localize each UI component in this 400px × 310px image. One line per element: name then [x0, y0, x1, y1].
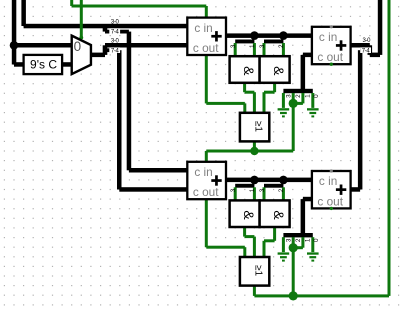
svg-text:c out: c out [317, 50, 343, 64]
wire AND U5 to OR U7 [245, 91, 255, 94]
svg-text:c out: c out [193, 185, 219, 199]
wire AND U10 output [273, 227, 276, 241]
node sum2 bit tap B [279, 176, 288, 185]
wire subtract to adder U1 carry-in [205, 6, 208, 18]
splitter K1 spine [283, 89, 312, 93]
adder U3 plus symbol [211, 179, 221, 182]
AND gate U9 box [230, 200, 260, 227]
AND gate U10 box [260, 200, 290, 227]
svg-text:3-0: 3-0 [111, 39, 120, 45]
node sum bit tap B [279, 31, 288, 40]
svg-text:&: & [271, 66, 287, 76]
wire input Y to splitter S1 [24, 24, 188, 29]
wire S1 7-4 down to adder U3 [127, 32, 132, 171]
adder U4 carry-in port [330, 169, 333, 172]
splitter K2 leg bit0 to ground [311, 237, 314, 252]
svg-text:c in: c in [319, 30, 337, 44]
svg-text:c in: c in [194, 21, 212, 35]
svg-text:9's C: 9's C [30, 58, 57, 72]
splitter K1 bit label 0 [313, 94, 320, 98]
adder U3 c out label [193, 185, 219, 199]
svg-text:3: 3 [230, 44, 237, 48]
wire OR U7 output [253, 141, 256, 151]
splitter S1 spine [103, 26, 108, 32]
svg-text:3: 3 [259, 44, 266, 48]
splitter M1 leg bit1 [253, 43, 256, 56]
svg-text:7-4: 7-4 [362, 48, 371, 54]
splitter M3 leg bit3 [234, 187, 237, 200]
splitter M3 stub [252, 180, 257, 184]
wire adder U1 carry-out down [205, 55, 208, 103]
svg-text:1: 1 [249, 44, 256, 48]
wire adder U1 sum bus [226, 33, 312, 38]
wire AND U9 output [243, 227, 246, 237]
AND gate U5 symbol [241, 66, 257, 76]
splitter S3 branch 7-4 [360, 48, 370, 52]
splitter S3 spine [368, 45, 373, 55]
splitter K1 bit label 2 [295, 94, 302, 98]
svg-text:c out: c out [193, 41, 219, 55]
node input X junction [10, 41, 19, 50]
splitter M1 leg bit3 [234, 43, 237, 56]
svg-text:1: 1 [249, 188, 256, 192]
wire mux select [79, 0, 83, 39]
wire K1 bit1 tie [293, 102, 303, 105]
splitter K1 bit label 3 [285, 94, 292, 98]
wire mux output to splitter S2 [91, 53, 105, 58]
AND gate U9 symbol [241, 210, 257, 220]
svg-text:&: & [241, 66, 257, 76]
splitter K2 combined up [301, 199, 306, 235]
wire result bus to top edge [378, 0, 383, 55]
wire S2 3-0 to adder U1 input B [105, 43, 187, 48]
splitter M4 spine [264, 184, 283, 188]
adder U1 box [187, 18, 226, 55]
svg-text:0: 0 [313, 238, 320, 242]
OR gate U7 box [240, 113, 269, 142]
adder U4 c out label [317, 194, 343, 208]
AND gate U10 symbol [271, 210, 287, 220]
svg-text:1: 1 [304, 238, 311, 242]
multiplexer MUX1 [72, 36, 91, 74]
svg-text:7-4: 7-4 [111, 48, 120, 54]
splitter K2 bit label 3 [285, 238, 292, 242]
svg-text:3: 3 [285, 94, 292, 98]
svg-text:0: 0 [313, 94, 320, 98]
splitter M2 leg bit3 [263, 43, 266, 56]
node correction junction [250, 147, 258, 155]
splitter S3 label 7-4 [360, 47, 371, 53]
wire input X to 9s-complement [14, 62, 24, 66]
adder U1 plus symbol [211, 35, 221, 38]
splitter K2 leg bit2 down [292, 237, 295, 296]
wire AND U6 output [273, 83, 276, 92]
wire into OR U7 input 3 [263, 92, 266, 112]
wire input X to mux [14, 43, 72, 48]
adder U4 carry-out port [330, 207, 333, 210]
node K2 tie junction [289, 243, 298, 252]
adder U2 c in label [319, 30, 337, 44]
wire AND U6 to OR U7 [264, 91, 275, 94]
adder U2 carry-in port [330, 25, 333, 28]
wire input X bus vertical [12, 0, 16, 65]
wire K2 bit1 tie [293, 246, 303, 249]
wire adder U3 carry-out down [205, 199, 208, 247]
svg-text:c in: c in [194, 165, 212, 179]
wire AND U5 output [243, 83, 246, 92]
wire S2 7-4 down to adder U3 [117, 50, 122, 189]
wire AND U9 to OR U8 [245, 235, 255, 238]
splitter K2 spine [283, 233, 312, 237]
splitter K2 leg bit3 to ground [282, 237, 285, 252]
adder U4 c in label [319, 174, 337, 188]
OR gate U8 symbol [252, 265, 263, 276]
wire subtract control top-left [70, 0, 73, 6]
svg-text:≥1: ≥1 [252, 265, 263, 276]
splitter K2 bit label 1 [304, 238, 311, 242]
splitter M1 spine [235, 40, 254, 44]
splitter K2 bit label 0 [313, 238, 320, 242]
adder U4 plus symbol [336, 188, 346, 191]
splitter S2 spine [103, 45, 108, 55]
splitter M1/M2 bit label 1 [249, 44, 256, 48]
splitter M2 stub [281, 36, 286, 40]
wire S1 7-4 to adder U3 input A [129, 168, 187, 173]
svg-text:2: 2 [278, 188, 285, 192]
wire subtract control horizontal [72, 5, 207, 8]
splitter S3 label 3-0 [362, 38, 371, 44]
splitter M4 leg bit2 [282, 187, 285, 200]
splitter M3/M4 bit label 3 [230, 188, 237, 192]
splitter S1 branch 7-4 [105, 30, 129, 34]
wire S2 7-4 to adder U3 input B [119, 187, 187, 192]
splitter S2 label 3-0 [109, 38, 120, 43]
svg-text:3-0: 3-0 [362, 38, 371, 44]
wire into OR U7 input 2 [253, 92, 256, 112]
splitter K1 leg bit0 to ground [311, 93, 314, 108]
splitter K1 combined up [301, 55, 306, 91]
wire correction to adder U2 input B [303, 53, 312, 58]
ground G1 [278, 108, 290, 110]
svg-text:c in: c in [319, 174, 337, 188]
node sum2 bit tap A [250, 176, 259, 185]
svg-text:2: 2 [278, 44, 285, 48]
wire input Y bus vertical [21, 0, 26, 26]
wire carry-out to OR U7 [206, 102, 245, 105]
splitter S1 label 3-0 [111, 19, 120, 25]
adder U2 carry-out port [330, 62, 333, 65]
splitter K1 leg bit1 down [301, 93, 304, 103]
AND gate U6 symbol [271, 66, 287, 76]
ground G4 [307, 252, 319, 254]
node K1 tie junction [289, 99, 298, 108]
adder U4 box [312, 171, 351, 208]
wire into OR U8 input 1 [243, 247, 246, 257]
AND gate U5 box [230, 56, 260, 83]
wire adder U4 output [351, 187, 361, 192]
svg-text:1: 1 [304, 94, 311, 98]
9s-complement X1 box [24, 55, 63, 74]
splitter M2 leg bit2 [282, 43, 285, 56]
splitter K1 bit label 1 [304, 94, 311, 98]
ground G2 [307, 108, 319, 110]
adder U3 c in label [194, 165, 212, 179]
wire 9s-complement output to mux [62, 62, 72, 66]
splitter M3/M4 bit label 3 [259, 188, 266, 192]
splitter M1/M2 bit label 2 [278, 44, 285, 48]
splitter M1 stub [252, 36, 257, 40]
adder U1 c in label [194, 21, 212, 35]
svg-text:&: & [271, 210, 287, 220]
splitter K1 leg bit2 down [292, 93, 295, 151]
svg-text:0: 0 [74, 39, 82, 54]
wire correction to adder U3 carry-in [205, 151, 208, 162]
svg-text:7-4: 7-4 [111, 29, 120, 35]
svg-text:3: 3 [259, 188, 266, 192]
wire adder U2 output to splitter S3 [351, 43, 370, 48]
wire correction run [206, 150, 293, 153]
svg-text:2: 2 [295, 94, 302, 98]
splitter M3/M4 bit label 2 [278, 188, 285, 192]
splitter S1 label 7-4 [109, 28, 120, 34]
splitter S2 label 7-4 [109, 47, 120, 53]
adder U2 c out label [317, 50, 343, 64]
svg-text:&: & [241, 210, 257, 220]
splitter K2 bit label 2 [295, 238, 302, 242]
svg-text:3: 3 [230, 188, 237, 192]
splitter M3 leg bit1 [253, 187, 256, 200]
AND gate U6 box [260, 56, 290, 83]
9s-complement X1 label [30, 58, 57, 72]
svg-text:c out: c out [317, 194, 343, 208]
splitter S3 combined link [370, 53, 380, 58]
splitter M3/M4 bit label 1 [249, 188, 256, 192]
node final carry junction [289, 291, 298, 300]
splitter M3 spine [235, 184, 254, 188]
wire OR U8 output [253, 286, 256, 296]
wire correction2 to adder U4 input B [303, 197, 312, 202]
svg-text:3-0: 3-0 [111, 19, 120, 25]
wire adder U3 sum bus [226, 178, 312, 183]
svg-text:2: 2 [295, 238, 302, 242]
splitter M1/M2 bit label 3 [230, 44, 237, 48]
wire final carry up right edge [388, 0, 391, 296]
splitter K1 leg bit3 to ground [282, 93, 285, 108]
adder U2 box [312, 27, 351, 64]
wire into OR U7 input 1 [243, 103, 246, 112]
adder U2 plus symbol [336, 44, 346, 47]
wire carry-out2 to OR U8 [206, 246, 245, 249]
splitter M4 stub [281, 180, 286, 184]
wire into OR U8 input 3 [263, 241, 266, 257]
adder U3 box [187, 162, 226, 199]
OR gate U7 symbol [252, 121, 263, 132]
svg-text:3: 3 [285, 238, 292, 242]
wire AND U10 to OR U8 [264, 239, 275, 242]
ground G3 [278, 252, 290, 254]
wire adder U4 output up to S3 [358, 50, 363, 189]
splitter M2 spine [264, 40, 283, 44]
wire final carry bottom run [254, 294, 389, 297]
splitter M1/M2 bit label 3 [259, 44, 266, 48]
wire into OR U8 input 2 [253, 237, 256, 257]
splitter S2 branch 7-4 [105, 48, 119, 52]
svg-text:≥1: ≥1 [252, 121, 263, 132]
multiplexer MUX1 label 0 [74, 39, 82, 54]
node sum bit tap A [250, 31, 259, 40]
splitter M4 leg bit3 [263, 187, 266, 200]
splitter K2 leg bit1 down [301, 237, 304, 248]
adder U1 c out label [193, 41, 219, 55]
OR gate U8 box [240, 257, 269, 286]
